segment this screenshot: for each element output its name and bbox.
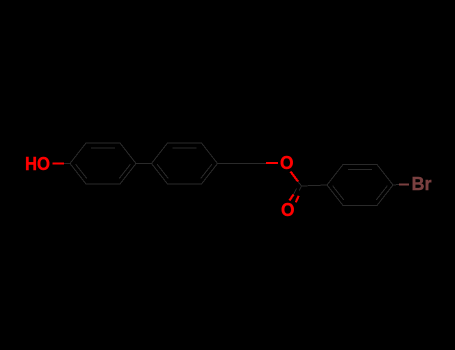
- bond C3-Br carbon half: [393, 184, 399, 187]
- bond C3-Br bromine half: [399, 183, 409, 185]
- carbonyl C=O double bond main line carbon half: [299, 186, 301, 191]
- benzene ring 2: [152, 143, 218, 184]
- carbonyl C=O double bond second line red half: [290, 195, 294, 201]
- svg-text:HO: HO: [25, 154, 50, 174]
- biphenyl bond C1-C2: [136, 163, 152, 165]
- svg-text:O: O: [281, 200, 295, 220]
- ring 1 double bond inner lines: [76, 148, 131, 178]
- benzene ring 1: [70, 143, 136, 184]
- svg-text:Br: Br: [412, 174, 432, 194]
- bond C2-O ester carbon half: [218, 163, 267, 165]
- ring 2 double bond inner lines: [157, 148, 212, 178]
- bond O-C1 red half: [53, 162, 65, 164]
- carbonyl C=O double bond main line red half: [296, 196, 299, 203]
- bond Ccarbonyl-C3: [302, 185, 328, 186]
- bond C2-O ester red half: [266, 162, 278, 164]
- ring 3 double bond inner lines: [333, 170, 388, 200]
- svg-text:O: O: [280, 153, 294, 173]
- carbonyl C=O double bond second line carbon half: [294, 189, 297, 195]
- bond O-C1 carbon half: [64, 163, 70, 165]
- bond O-Ccarbonyl red half: [291, 172, 299, 182]
- benzene ring 3: [327, 165, 393, 206]
- bond O-Ccarbonyl carbon half: [298, 182, 302, 187]
